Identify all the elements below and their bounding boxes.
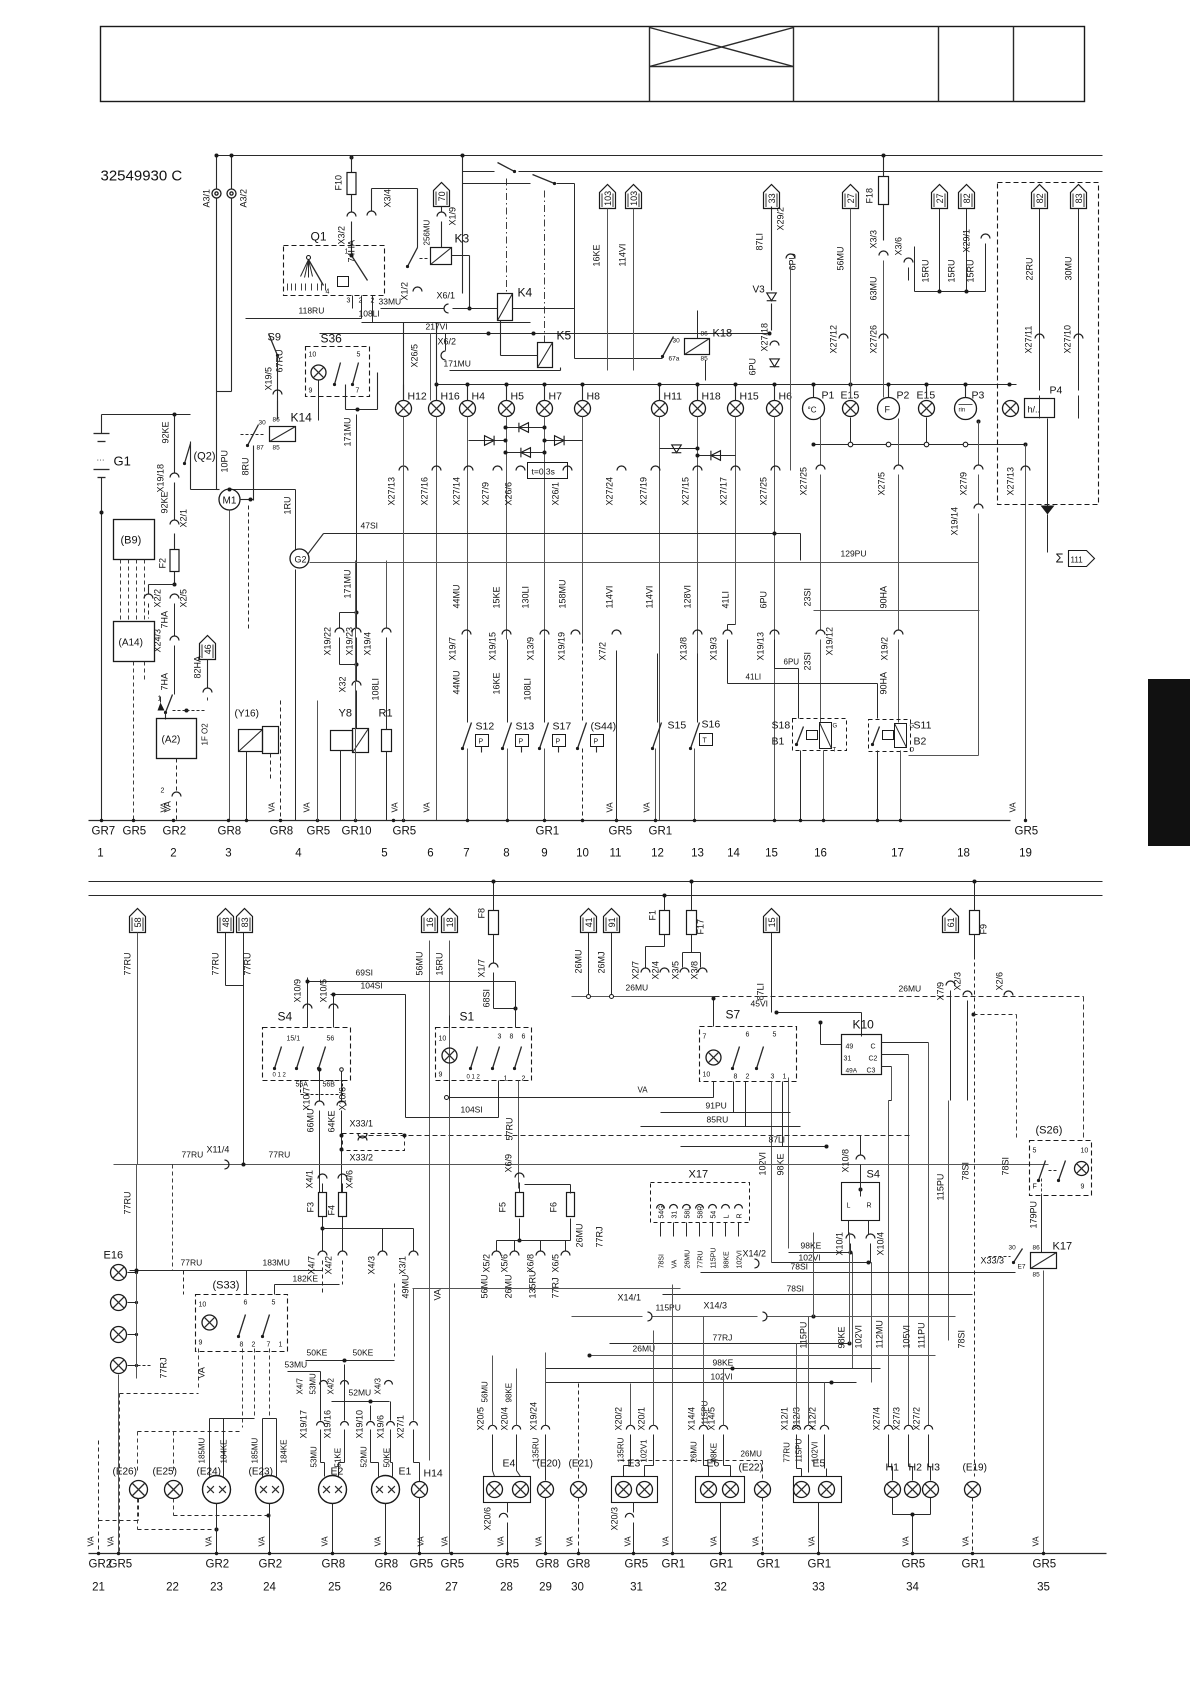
svg-text:48: 48	[221, 917, 231, 927]
svg-text:F1: F1	[648, 910, 658, 921]
svg-text:185MU: 185MU	[198, 1437, 207, 1463]
svg-text:10: 10	[576, 848, 589, 860]
svg-text:E5: E5	[813, 1458, 826, 1470]
svg-text:X4/3: X4/3	[374, 1377, 383, 1394]
svg-text:O: O	[910, 748, 915, 754]
svg-text:24: 24	[263, 1582, 276, 1594]
svg-text:VA: VA	[638, 1086, 649, 1095]
svg-text:1: 1	[783, 1074, 787, 1081]
svg-text:10: 10	[439, 1036, 447, 1043]
svg-text:X3/4: X3/4	[383, 189, 393, 208]
svg-text:C: C	[871, 1044, 876, 1051]
svg-text:X2/7: X2/7	[631, 961, 641, 980]
svg-text:8RU: 8RU	[241, 457, 251, 475]
svg-text:44MU: 44MU	[452, 584, 462, 608]
svg-text:X2/3: X2/3	[953, 972, 963, 991]
svg-text:VA: VA	[303, 802, 312, 813]
svg-text:VA: VA	[160, 802, 169, 813]
svg-text:68SI: 68SI	[482, 989, 492, 1008]
svg-text:GR2: GR2	[259, 1559, 283, 1571]
svg-text:GR5: GR5	[609, 826, 633, 838]
svg-text:102VI: 102VI	[854, 1325, 864, 1349]
svg-text:78SI: 78SI	[957, 1330, 967, 1349]
svg-text:23SI: 23SI	[803, 652, 813, 671]
svg-text:X13/9: X13/9	[526, 637, 536, 661]
svg-text:27: 27	[935, 193, 945, 203]
svg-text:G: G	[833, 724, 838, 730]
svg-text:VA: VA	[391, 802, 400, 813]
svg-text:S18: S18	[772, 720, 791, 732]
svg-text:X1/2: X1/2	[400, 282, 410, 301]
svg-text:X6/8: X6/8	[526, 1254, 536, 1273]
svg-text:K18: K18	[713, 328, 733, 340]
svg-text:K4: K4	[518, 286, 533, 300]
svg-text:S15: S15	[668, 720, 687, 732]
svg-text:X11/4: X11/4	[207, 1145, 230, 1155]
svg-text:X4/7: X4/7	[296, 1377, 305, 1394]
svg-text:49: 49	[846, 1044, 854, 1051]
svg-text:16KE: 16KE	[592, 244, 602, 266]
svg-text:P2: P2	[897, 390, 910, 402]
svg-text:VA: VA	[643, 802, 652, 813]
svg-text:GR8: GR8	[322, 1559, 346, 1571]
svg-text:X6/9: X6/9	[504, 1154, 514, 1173]
svg-text:82: 82	[1035, 193, 1045, 203]
svg-text:VA: VA	[107, 1536, 116, 1547]
svg-text:56MU: 56MU	[481, 1381, 490, 1403]
svg-text:E1: E1	[399, 1466, 412, 1478]
svg-text:X3/5: X3/5	[671, 961, 681, 980]
svg-text:Y8: Y8	[339, 708, 352, 720]
svg-text:3: 3	[498, 1034, 502, 1041]
svg-text:77RU: 77RU	[243, 952, 253, 975]
svg-text:S4: S4	[278, 1010, 293, 1024]
svg-text:K17: K17	[1053, 1241, 1073, 1253]
svg-text:H2: H2	[909, 1462, 923, 1474]
svg-text:H5: H5	[511, 391, 525, 403]
svg-text:X4/1: X4/1	[305, 1170, 315, 1189]
svg-text:1: 1	[279, 1342, 283, 1349]
svg-text:X27/3: X27/3	[892, 1407, 902, 1431]
svg-text:VA: VA	[441, 1536, 450, 1547]
svg-text:115PU: 115PU	[936, 1174, 946, 1201]
svg-text:F: F	[1033, 1184, 1037, 1191]
svg-text:S17: S17	[553, 721, 572, 733]
svg-text:X27/9: X27/9	[481, 482, 491, 506]
svg-text:15RU: 15RU	[435, 952, 445, 975]
svg-text:GR8: GR8	[270, 826, 294, 838]
svg-text:78SI: 78SI	[659, 1254, 666, 1268]
svg-text:105VI: 105VI	[902, 1325, 912, 1349]
svg-text:VA: VA	[566, 1536, 575, 1547]
svg-text:9: 9	[309, 388, 313, 395]
svg-text:9: 9	[1081, 1184, 1085, 1191]
svg-text:X27/17: X27/17	[719, 477, 729, 506]
svg-text:10: 10	[199, 1302, 207, 1309]
svg-text:F2: F2	[158, 558, 168, 569]
svg-text:4: 4	[295, 848, 302, 860]
svg-text:VA: VA	[1009, 802, 1018, 813]
svg-text:22RU: 22RU	[1025, 257, 1035, 280]
svg-text:X29/1: X29/1	[962, 229, 972, 253]
svg-text:VA: VA	[606, 802, 615, 813]
svg-text:T: T	[833, 748, 837, 754]
svg-text:H16: H16	[441, 391, 460, 403]
svg-text:(A2): (A2)	[162, 735, 181, 746]
svg-text:E15: E15	[841, 390, 860, 402]
svg-text:VA: VA	[423, 802, 432, 813]
svg-text:(A14): (A14)	[119, 638, 143, 649]
svg-text:···: ···	[97, 456, 105, 465]
svg-text:F5: F5	[498, 1202, 508, 1213]
svg-text:VA: VA	[87, 1536, 96, 1547]
svg-text:H1: H1	[886, 1462, 900, 1474]
svg-text:67RU: 67RU	[275, 349, 285, 372]
svg-text:7: 7	[356, 388, 360, 395]
svg-text:X2/2: X2/2	[153, 589, 163, 608]
svg-text:VA: VA	[1032, 1536, 1041, 1547]
svg-text:P: P	[479, 739, 484, 746]
svg-text:26MU: 26MU	[690, 1441, 699, 1463]
svg-text:X27/25: X27/25	[799, 467, 809, 496]
svg-text:83: 83	[1074, 193, 1084, 203]
svg-text:0 1 2: 0 1 2	[467, 1075, 481, 1081]
svg-text:26MU: 26MU	[741, 1450, 763, 1459]
svg-text:1RU: 1RU	[283, 496, 293, 514]
svg-text:H7: H7	[549, 391, 563, 403]
svg-text:6PU: 6PU	[759, 591, 769, 609]
svg-text:7: 7	[267, 1342, 271, 1349]
svg-text:C2: C2	[869, 1056, 878, 1063]
svg-text:X27/19: X27/19	[639, 477, 649, 506]
svg-text:F8: F8	[477, 908, 487, 919]
svg-text:(S26): (S26)	[1036, 1125, 1063, 1137]
svg-text:VA: VA	[433, 1289, 443, 1300]
svg-text:X10/7: X10/7	[302, 1087, 312, 1111]
svg-text:4: 4	[326, 289, 330, 296]
svg-text:53MU: 53MU	[310, 1446, 319, 1468]
svg-text:Σ: Σ	[1056, 551, 1064, 566]
svg-text:52MU: 52MU	[349, 1388, 372, 1398]
svg-text:X20/1: X20/1	[637, 1407, 647, 1431]
svg-text:X32: X32	[338, 676, 348, 692]
svg-text:X3/1: X3/1	[398, 1256, 408, 1275]
svg-text:30: 30	[1009, 1245, 1017, 1252]
svg-text:31: 31	[672, 1211, 679, 1219]
svg-text:3: 3	[347, 298, 351, 305]
svg-text:46: 46	[203, 644, 213, 654]
svg-text:30: 30	[673, 338, 681, 345]
svg-text:26MU: 26MU	[574, 949, 584, 973]
svg-text:3: 3	[225, 848, 231, 860]
svg-text:K5: K5	[557, 329, 572, 343]
svg-text:X4/6: X4/6	[345, 1170, 355, 1189]
svg-text:X19/13: X19/13	[756, 632, 766, 661]
svg-text:GR5: GR5	[1015, 826, 1039, 838]
svg-text:X2/1: X2/1	[179, 509, 189, 528]
svg-text:57RU: 57RU	[505, 1117, 515, 1140]
svg-text:VA: VA	[672, 1259, 679, 1268]
svg-text:GR5: GR5	[441, 1559, 465, 1571]
svg-text:X2/4: X2/4	[651, 961, 661, 980]
svg-text:X10/6: X10/6	[338, 1087, 348, 1111]
svg-text:rin: rin	[959, 408, 966, 414]
svg-text:56MU: 56MU	[480, 1274, 490, 1298]
svg-text:X19/17: X19/17	[299, 1410, 309, 1439]
svg-text:91PU: 91PU	[706, 1101, 727, 1111]
svg-text:77RU: 77RU	[269, 1150, 291, 1160]
svg-text:108LI: 108LI	[523, 678, 533, 701]
svg-text:X19/24: X19/24	[529, 1402, 539, 1431]
svg-text:158MU: 158MU	[558, 579, 568, 608]
svg-text:14: 14	[727, 848, 740, 860]
svg-text:P: P	[556, 739, 561, 746]
svg-text:15: 15	[767, 917, 777, 927]
svg-text:6: 6	[746, 1032, 750, 1039]
svg-text:VA: VA	[624, 1536, 633, 1547]
svg-text:77RJ: 77RJ	[159, 1357, 169, 1378]
svg-text:184KE: 184KE	[220, 1439, 229, 1463]
svg-text:X27/18: X27/18	[760, 323, 770, 352]
svg-text:77RU: 77RU	[211, 952, 221, 975]
svg-text:26MU: 26MU	[899, 984, 922, 994]
svg-text:6PU: 6PU	[748, 358, 758, 376]
svg-text:GR5: GR5	[393, 826, 417, 838]
svg-text:GR8: GR8	[536, 1559, 560, 1571]
svg-text:118RU: 118RU	[299, 306, 325, 316]
svg-text:X20/2: X20/2	[614, 1407, 624, 1431]
svg-text:1F O2: 1F O2	[201, 723, 210, 746]
svg-text:E4: E4	[503, 1458, 516, 1470]
svg-text:98KE: 98KE	[724, 1251, 731, 1268]
svg-text:6: 6	[427, 848, 433, 860]
svg-text:X19/22: X19/22	[323, 627, 333, 656]
svg-text:X19/23: X19/23	[345, 627, 355, 656]
svg-text:X4/7: X4/7	[307, 1256, 317, 1275]
svg-text:GR8: GR8	[218, 826, 242, 838]
svg-text:X27/24: X27/24	[605, 477, 615, 506]
svg-text:104SI: 104SI	[361, 981, 383, 991]
svg-text:X29/2: X29/2	[776, 207, 786, 231]
svg-text:5: 5	[773, 1032, 777, 1039]
svg-text:R: R	[867, 1203, 872, 1210]
svg-text:31: 31	[630, 1582, 643, 1594]
svg-text:56: 56	[327, 1036, 335, 1043]
svg-text:26MU: 26MU	[575, 1223, 585, 1247]
svg-text:41LI: 41LI	[746, 673, 762, 682]
svg-text:h/..: h/..	[1028, 405, 1041, 415]
svg-text:X10/9: X10/9	[293, 979, 303, 1003]
svg-text:X3/6: X3/6	[894, 237, 904, 256]
svg-text:P1: P1	[822, 390, 835, 402]
svg-text:VA: VA	[535, 1536, 544, 1547]
svg-text:X19/12: X19/12	[825, 627, 835, 656]
svg-text:64KE: 64KE	[327, 1110, 337, 1132]
svg-text:G: G	[910, 724, 915, 730]
svg-text:X19/19: X19/19	[557, 632, 567, 661]
svg-text:GR2: GR2	[163, 826, 187, 838]
svg-text:G1: G1	[114, 454, 131, 469]
svg-text:77RU: 77RU	[123, 952, 133, 975]
svg-text:185MU: 185MU	[251, 1437, 260, 1463]
svg-text:10: 10	[1081, 1148, 1089, 1155]
svg-text:X19/10: X19/10	[355, 1410, 365, 1439]
svg-text:115PU: 115PU	[656, 1303, 681, 1313]
svg-text:111PU: 111PU	[917, 1322, 927, 1348]
svg-text:70: 70	[437, 191, 447, 201]
svg-text:GR5: GR5	[902, 1559, 926, 1571]
svg-text:6PU: 6PU	[788, 253, 798, 271]
svg-text:°C: °C	[808, 406, 817, 415]
svg-text:53MU: 53MU	[309, 1373, 318, 1395]
svg-text:27: 27	[445, 1582, 458, 1594]
svg-text:29: 29	[539, 1582, 552, 1594]
svg-text:X27/13: X27/13	[387, 477, 397, 506]
svg-text:77RU: 77RU	[182, 1150, 204, 1160]
svg-text:X27/10: X27/10	[1063, 325, 1073, 354]
svg-text:115PU: 115PU	[701, 1400, 710, 1424]
svg-text:5: 5	[381, 848, 387, 860]
svg-text:34: 34	[906, 1582, 919, 1594]
svg-text:77RJ: 77RJ	[551, 1277, 561, 1298]
svg-text:t=0.3s: t=0.3s	[532, 467, 555, 477]
svg-text:VA: VA	[902, 1536, 911, 1547]
svg-text:114VI: 114VI	[605, 586, 615, 609]
svg-text:56MU: 56MU	[415, 951, 425, 975]
svg-text:X26/5: X26/5	[410, 344, 420, 368]
svg-text:10: 10	[309, 352, 317, 359]
svg-text:98KE: 98KE	[713, 1358, 734, 1368]
svg-text:S16: S16	[702, 719, 721, 731]
svg-text:L: L	[847, 1203, 851, 1210]
svg-text:GR8: GR8	[567, 1559, 591, 1571]
svg-text:2: 2	[746, 1074, 750, 1081]
svg-text:E3: E3	[628, 1458, 641, 1470]
svg-text:X19/5: X19/5	[264, 367, 274, 391]
svg-text:50KE: 50KE	[307, 1348, 328, 1358]
svg-text:X27/11: X27/11	[1024, 326, 1034, 354]
svg-text:F18: F18	[865, 188, 875, 204]
svg-text:1: 1	[504, 1076, 508, 1083]
svg-text:X2/5: X2/5	[179, 589, 189, 608]
svg-text:85: 85	[701, 356, 709, 363]
svg-text:P: P	[519, 739, 524, 746]
svg-text:56B: 56B	[323, 1082, 336, 1089]
svg-text:(E20): (E20)	[537, 1459, 561, 1470]
svg-text:(E25): (E25)	[153, 1467, 177, 1478]
svg-text:H15: H15	[740, 391, 759, 403]
svg-text:1: 1	[345, 249, 349, 256]
svg-text:111: 111	[1071, 556, 1084, 565]
svg-text:8: 8	[503, 848, 509, 860]
svg-text:(Q2): (Q2)	[194, 451, 216, 463]
svg-text:VA: VA	[710, 1536, 719, 1547]
svg-text:85RU: 85RU	[707, 1115, 729, 1125]
svg-text:15: 15	[765, 848, 778, 860]
svg-text:X19/6: X19/6	[376, 1415, 386, 1439]
svg-text:30: 30	[571, 1582, 584, 1594]
svg-text:H4: H4	[472, 391, 486, 403]
svg-text:X20/3: X20/3	[610, 1507, 620, 1531]
svg-text:VA: VA	[268, 802, 277, 813]
svg-text:7HA: 7HA	[160, 673, 170, 691]
svg-text:45VI: 45VI	[751, 999, 769, 1009]
svg-text:0 1 2: 0 1 2	[273, 1073, 287, 1079]
svg-text:179PU: 179PU	[1029, 1201, 1039, 1229]
svg-text:103: 103	[629, 191, 639, 206]
svg-text:VA: VA	[662, 1536, 671, 1547]
svg-text:26MU: 26MU	[504, 1274, 514, 1298]
svg-text:6: 6	[244, 1300, 248, 1307]
svg-text:44MU: 44MU	[452, 670, 462, 694]
svg-text:56MU: 56MU	[836, 246, 846, 270]
svg-text:18: 18	[957, 848, 970, 860]
svg-text:GR1: GR1	[808, 1559, 832, 1571]
svg-text:10PU: 10PU	[220, 450, 230, 473]
svg-text:26MJ: 26MJ	[597, 951, 607, 973]
svg-text:X10/4: X10/4	[876, 1232, 886, 1256]
svg-text:X14/4: X14/4	[687, 1407, 697, 1431]
svg-text:X27/25: X27/25	[759, 477, 769, 506]
svg-text:S36: S36	[321, 332, 343, 346]
svg-text:16: 16	[814, 848, 827, 860]
svg-text:X27/4: X27/4	[872, 1407, 882, 1431]
svg-text:GR1: GR1	[710, 1559, 734, 1571]
svg-text:85: 85	[273, 445, 281, 452]
svg-text:87LI: 87LI	[769, 1135, 786, 1145]
svg-text:17: 17	[891, 848, 904, 860]
svg-text:15RU: 15RU	[966, 259, 976, 282]
svg-text:18: 18	[445, 917, 455, 927]
svg-text:41: 41	[584, 917, 594, 927]
svg-text:114VI: 114VI	[618, 244, 628, 267]
svg-text:9: 9	[541, 848, 547, 860]
svg-text:2: 2	[522, 1076, 526, 1083]
svg-text:X19/4: X19/4	[363, 632, 373, 656]
svg-text:16KE: 16KE	[492, 672, 502, 694]
svg-text:M1: M1	[223, 496, 237, 507]
svg-text:GR5: GR5	[307, 826, 331, 838]
svg-text:E6: E6	[707, 1458, 720, 1470]
svg-text:(S44): (S44)	[591, 721, 617, 733]
svg-text:H11: H11	[664, 391, 683, 403]
svg-text:5: 5	[1033, 1148, 1037, 1155]
svg-text:X13/8: X13/8	[679, 637, 689, 661]
svg-text:2: 2	[161, 788, 165, 795]
svg-text:5: 5	[272, 1300, 276, 1307]
svg-text:2: 2	[170, 848, 176, 860]
svg-text:GR1: GR1	[757, 1559, 781, 1571]
svg-text:23SI: 23SI	[803, 588, 813, 607]
svg-text:115PU: 115PU	[799, 1322, 809, 1349]
svg-text:VA: VA	[808, 1536, 817, 1547]
svg-text:58: 58	[133, 917, 143, 927]
svg-text:GR7: GR7	[92, 826, 116, 838]
svg-text:92KE: 92KE	[160, 491, 170, 513]
svg-text:128VI: 128VI	[683, 585, 693, 609]
svg-text:78SI: 78SI	[1001, 1157, 1011, 1176]
svg-text:X19/7: X19/7	[448, 637, 458, 661]
svg-text:X14/2: X14/2	[743, 1249, 767, 1259]
svg-text:77RJ: 77RJ	[713, 1333, 733, 1343]
svg-text:82HA: 82HA	[193, 656, 203, 679]
svg-text:S4: S4	[867, 1169, 880, 1181]
svg-text:X33/2: X33/2	[350, 1153, 374, 1163]
svg-text:X27/15: X27/15	[681, 477, 691, 506]
svg-text:91: 91	[607, 917, 617, 927]
svg-text:103: 103	[603, 191, 613, 206]
svg-text:X33/3: X33/3	[981, 1256, 1005, 1266]
